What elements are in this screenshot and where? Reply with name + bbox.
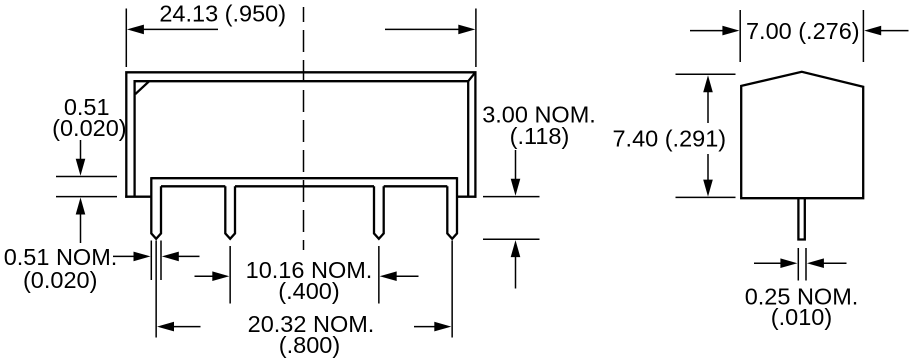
svg-text:24.13 (.950): 24.13 (.950): [159, 1, 286, 27]
dimension 10.16 NOM. (.400): extension lines: [230, 246, 379, 304]
dimension 10.16 NOM. (.400): left arrow: [195, 271, 230, 281]
dimension 3.00 NOM. (.118): down arrow: [511, 150, 521, 196]
dimension 0.51 (0.020): label: [52, 94, 126, 141]
dimension 7.00 (.276): right arrow: [864, 26, 908, 36]
pin 1: [151, 177, 161, 239]
dimension 0.51 (0.020): up arrow: [76, 198, 86, 244]
front view: base plate top edge: [151, 177, 457, 179]
pin 3: [374, 186, 384, 239]
svg-text:(0.020): (0.020): [23, 267, 97, 293]
dimension 0.51 NOM. (0.020): right-pointing arrow: [113, 252, 151, 262]
svg-text:0.51 NOM.: 0.51 NOM.: [4, 244, 118, 270]
dimension 20.32 NOM. (.800): left arrow: [157, 322, 201, 332]
dimension 24.13 (.950): label: [159, 1, 286, 27]
front view: case bottom edge left segment: [125, 196, 151, 198]
svg-text:(.800): (.800): [279, 332, 340, 358]
svg-text:(.400): (.400): [278, 278, 339, 304]
dimension 20.32 NOM. (.800): label: [248, 311, 375, 358]
dimension 0.51 NOM. (0.020) pin width: extension lines: [151, 241, 161, 281]
dimension 3.00 NOM. (.118): label: [482, 101, 596, 149]
front view: base plate bottom edge segments: [161, 185, 447, 187]
dimension 0.51 (0.020): extension lines: [56, 177, 117, 197]
side view: pin: [798, 199, 804, 240]
dimension 0.25 NOM. (.010): label: [745, 284, 859, 330]
dimension 7.00 (.276): extension lines: [740, 10, 863, 62]
dimension 3.00 NOM. (.118): up arrow: [511, 240, 521, 288]
dimension 24.13 (.950): left extension line: [125, 9, 127, 68]
dimension 10.16 NOM. (.400): right arrow: [380, 271, 419, 281]
svg-text:(.118): (.118): [510, 123, 570, 149]
dimension 0.25 NOM. (.010): left arrow: [754, 258, 797, 268]
dimension 7.40 (.291): down arrow: [703, 154, 713, 197]
svg-text:(.010): (.010): [771, 304, 832, 330]
dimension 24.13 (.950): right extension line: [475, 9, 477, 68]
dimension 7.00 (.276): label: [746, 18, 860, 44]
front view: top-right bevel edge: [468, 72, 475, 81]
dimension 3.00 NOM. (.118): extension lines: [483, 197, 540, 240]
dimension 0.51 NOM. (0.020): left-pointing arrow: [162, 252, 200, 262]
front view: relay case outer outline: [126, 72, 475, 197]
front view: case bottom edge right segment: [457, 196, 477, 198]
dimension 0.51 (0.020): down arrow: [76, 140, 86, 176]
svg-text:(0.020): (0.020): [52, 115, 126, 141]
dimension 24.13 (.950): left arrow: [127, 25, 218, 35]
dimension 7.40 (.291): up arrow: [703, 75, 713, 123]
dimension 7.00 (.276): left arrow: [690, 26, 739, 36]
dimension 0.51 NOM. (0.020): label: [4, 244, 118, 293]
svg-text:7.40 (.291): 7.40 (.291): [612, 126, 726, 152]
dimension 0.25 NOM. (.010): extension lines: [798, 248, 806, 281]
dimension 7.40 (.291): label: [612, 126, 726, 152]
svg-text:7.00 (.276): 7.00 (.276): [746, 18, 860, 44]
front view: pin-1 corner chamfer mark: [135, 81, 149, 94]
pin 2: [225, 186, 235, 239]
front view: case inner outline: [135, 81, 469, 197]
pin 4: [447, 177, 457, 239]
dimension 0.25 NOM. (.010): right arrow: [807, 258, 847, 268]
dimension 7.40 (.291): extension lines: [676, 74, 736, 197]
dimension 24.13 (.950): right arrow: [385, 25, 475, 35]
side view: relay case outline: [741, 72, 863, 198]
dimension 10.16 NOM. (.400): label: [246, 257, 373, 304]
dimension 20.32 NOM. (.800): extension lines: [156, 241, 452, 338]
dimension 20.32 NOM. (.800): right arrow: [414, 322, 451, 332]
front view: vertical centerline (dashed): [303, 7, 305, 250]
